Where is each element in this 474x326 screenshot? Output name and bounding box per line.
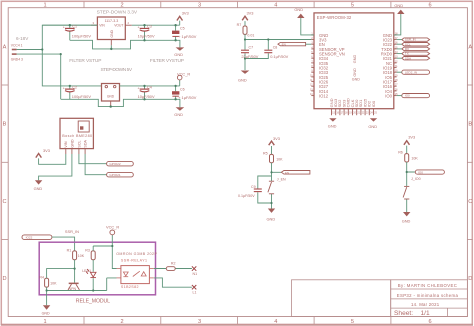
svg-text:SDA: SDA: [84, 139, 88, 147]
svg-text:NPN: NPN: [69, 287, 77, 291]
svg-text:SSR_IN: SSR_IN: [65, 229, 79, 234]
svg-text:IO12: IO12: [319, 94, 329, 99]
svg-text:C9: C9: [251, 185, 256, 189]
svg-text:N1: N1: [193, 272, 198, 276]
svg-text:GND: GND: [294, 7, 303, 12]
svg-text:C1: C1: [72, 25, 77, 29]
svg-text:GND: GND: [110, 30, 114, 38]
svg-text:3: 3: [198, 3, 201, 9]
svg-text:GND: GND: [107, 94, 115, 98]
svg-text:By: MARTIN CHLEBOVEC: By: MARTIN CHLEBOVEC: [398, 283, 458, 288]
svg-text:A: A: [3, 44, 7, 50]
svg-text:C: C: [2, 199, 6, 205]
svg-text:5: 5: [351, 3, 354, 9]
svg-text:GND: GND: [174, 112, 183, 117]
svg-text:10K: 10K: [78, 254, 85, 258]
svg-text:D: D: [468, 276, 472, 282]
svg-text:J_IO0: J_IO0: [411, 177, 421, 181]
svg-text:C6: C6: [180, 87, 185, 91]
svg-text:+: +: [138, 26, 140, 30]
svg-text:GND: GND: [70, 139, 74, 148]
svg-text:ESP-WROOM-32: ESP-WROOM-32: [317, 15, 352, 20]
svg-text:A: A: [468, 44, 472, 50]
svg-text:TX: TX: [405, 52, 409, 56]
svg-text:3V3: 3V3: [273, 136, 280, 141]
svg-text:GND: GND: [353, 68, 357, 77]
svg-text:100µF/50V: 100µF/50V: [72, 94, 92, 99]
svg-text:C2: C2: [72, 85, 77, 89]
svg-text:GND: GND: [353, 55, 357, 64]
svg-text:GND4 3: GND4 3: [11, 57, 23, 61]
svg-text:IO0: IO0: [405, 94, 410, 98]
svg-text:R7: R7: [237, 23, 242, 27]
svg-text:J_EN: J_EN: [277, 177, 286, 181]
svg-text:Sheet:: Sheet:: [394, 310, 413, 317]
svg-text:1: 1: [43, 3, 46, 9]
svg-text:R4: R4: [39, 276, 44, 280]
svg-text:6: 6: [428, 3, 431, 9]
svg-text:LED2_IN: LED2_IN: [405, 70, 417, 74]
svg-text:GPIO21: GPIO21: [109, 173, 120, 177]
svg-text:GND: GND: [368, 124, 377, 129]
svg-text:GND: GND: [352, 78, 360, 82]
svg-text:SCL: SCL: [405, 42, 411, 46]
svg-text:VIN: VIN: [64, 141, 68, 147]
svg-text:R2: R2: [171, 261, 176, 265]
svg-text:100µF/50V: 100µF/50V: [72, 33, 92, 38]
svg-text:IO0: IO0: [418, 171, 423, 175]
svg-text:3V3: 3V3: [408, 134, 415, 139]
svg-text:FILTER VSTUP: FILTER VSTUP: [69, 58, 101, 64]
svg-text:D: D: [2, 276, 6, 282]
svg-text:GND: GND: [267, 216, 276, 221]
svg-text:C5: C5: [180, 27, 185, 31]
svg-text:L1: L1: [193, 291, 197, 295]
svg-text:C: C: [468, 199, 472, 205]
svg-text:6-18V: 6-18V: [16, 36, 29, 41]
svg-text:GND: GND: [34, 186, 43, 191]
svg-text:FILTER VYSTUP: FILTER VYSTUP: [150, 58, 184, 64]
svg-text:GND: GND: [42, 312, 50, 316]
svg-text:1/1: 1/1: [421, 310, 430, 317]
svg-text:R5: R5: [263, 152, 268, 156]
svg-text:2: 2: [120, 3, 123, 9]
svg-text:14. Mar 2021: 14. Mar 2021: [411, 302, 440, 307]
svg-text:SSR_IN: SSR_IN: [405, 38, 416, 42]
svg-text:Bosch BME280: Bosch BME280: [62, 134, 92, 138]
svg-text:S1B2S82: S1B2S82: [121, 285, 139, 289]
svg-text:EN: EN: [285, 171, 289, 175]
svg-text:+: +: [138, 86, 140, 90]
svg-text:VCC_R: VCC_R: [106, 224, 119, 229]
svg-text:EN: EN: [282, 42, 286, 46]
svg-text:0.1µF/50V: 0.1µF/50V: [238, 194, 255, 198]
svg-text:VIN: VIN: [99, 24, 105, 28]
svg-text:STEP-DOWN 3.3V: STEP-DOWN 3.3V: [97, 9, 138, 15]
svg-text:IO22: IO22: [26, 236, 33, 240]
svg-text:ESP32 - minimalna schema: ESP32 - minimalna schema: [397, 293, 459, 298]
svg-text:0.1µF/50V: 0.1µF/50V: [270, 54, 288, 59]
svg-text:10K: 10K: [276, 158, 283, 162]
svg-text:10µF/50V: 10µF/50V: [138, 94, 155, 99]
svg-text:C7: C7: [249, 45, 254, 49]
svg-text:10K: 10K: [411, 157, 418, 161]
svg-text:+ 1µF/50V: + 1µF/50V: [178, 34, 197, 39]
svg-text:IO0: IO0: [371, 100, 376, 107]
svg-text:GND: GND: [238, 77, 247, 82]
svg-text:+: +: [63, 86, 65, 90]
svg-text:SDA: SDA: [405, 56, 411, 60]
svg-text:3V3: 3V3: [182, 10, 189, 15]
svg-text:GND: GND: [394, 3, 403, 8]
svg-text:3V3: 3V3: [247, 10, 254, 15]
svg-text:1117-3.3: 1117-3.3: [105, 19, 119, 23]
svg-text:3V3: 3V3: [43, 148, 50, 153]
svg-text:VOUT: VOUT: [114, 24, 123, 28]
svg-text:OMRON G3MB 202P: OMRON G3MB 202P: [116, 252, 157, 256]
svg-text:SCL: SCL: [77, 140, 81, 147]
svg-text:SSR-RELAY1: SSR-RELAY1: [121, 258, 148, 262]
svg-text:IO0: IO0: [385, 94, 392, 99]
svg-text:0.01: 0.01: [247, 33, 254, 37]
svg-text:GND: GND: [402, 218, 411, 223]
svg-text:10K: 10K: [50, 281, 57, 285]
svg-text:4: 4: [274, 3, 277, 9]
svg-text:R6: R6: [398, 151, 403, 155]
svg-text:+: +: [63, 26, 65, 30]
svg-text:B: B: [3, 122, 7, 128]
svg-text:C4: C4: [147, 85, 152, 89]
svg-text:RELE_MODUL: RELE_MODUL: [76, 299, 110, 305]
svg-text:STEP-DOWN 5V: STEP-DOWN 5V: [101, 67, 133, 73]
svg-text:10µF/50V: 10µF/50V: [138, 33, 155, 38]
svg-text:RX: RX: [405, 47, 409, 51]
svg-text:B: B: [468, 122, 472, 128]
svg-text:22µF/50V: 22µF/50V: [241, 54, 258, 59]
svg-text:R1: R1: [67, 248, 72, 252]
svg-text:GPIO22: GPIO22: [109, 162, 120, 166]
svg-text:GND: GND: [174, 52, 183, 57]
svg-text:VCC4 1: VCC4 1: [11, 43, 23, 47]
svg-text:+ 1µF/50V: + 1µF/50V: [178, 95, 197, 100]
svg-text:R3: R3: [85, 248, 90, 252]
svg-text:C3: C3: [147, 25, 152, 29]
svg-text:GND: GND: [328, 123, 337, 128]
svg-text:C8: C8: [273, 45, 278, 49]
